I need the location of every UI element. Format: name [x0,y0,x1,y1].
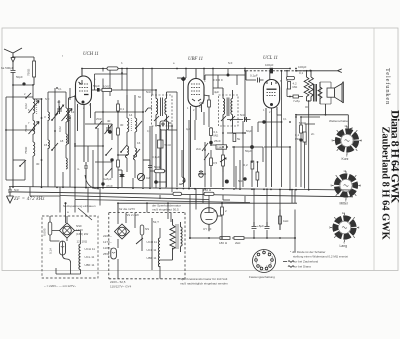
top rail [82,68,178,70]
input frame wires [6,85,75,187]
svg-text:127V~: 127V~ [103,240,112,244]
trim arrows IF1 [154,116,169,121]
heater line b [75,200,250,203]
long risers from main area down [100,187,245,206]
osc coil D3 [125,146,128,158]
antenna [4,48,22,187]
svg-text:Sperrkreistransformator für 11: Sperrkreistransformator für 110 Volt [180,277,227,281]
osc coil D4 [133,148,136,160]
svg-text:15: 15 [44,143,48,147]
svg-text:0,095: 0,095 [43,228,47,236]
osc section verticals [75,95,143,187]
svg-text:6a 500pF: 6a 500pF [1,66,14,70]
heater line c [118,202,297,204]
svg-text:25nF: 25nF [96,117,102,121]
switch M1 [105,148,112,156]
svg-text:ZF = 472 kHz: ZF = 472 kHz [14,197,45,202]
screen resistor 250 [208,100,211,107]
trim arrows IF2 [221,116,235,121]
svg-text:Kurz: Kurz [342,157,349,161]
resistor 0,5M [210,158,213,166]
switch K1 [51,113,58,121]
svg-text:110V~: 110V~ [103,246,112,250]
svg-text:~ = 220V~ — mit 127V~: ~ = 220V~ — mit 127V~ [44,284,76,288]
svg-text:100pF: 100pF [298,65,307,69]
resistor 0,1M [210,128,213,136]
svg-text:UCL 11: UCL 11 [147,248,157,252]
svg-text:30: 30 [213,209,217,213]
cap 100pF blob on rail [270,68,273,74]
svg-text:50pF: 50pF [93,84,100,88]
blob caps mid-left [108,130,111,133]
cap 50nF horizontal [239,117,251,122]
svg-text:25W: 25W [103,252,109,256]
svg-text:50µF: 50µF [246,129,252,133]
svg-text:500Ω: 500Ω [299,121,307,125]
mains sperrkreis transformer [160,219,178,260]
top rail to jack [296,69,342,73]
svg-text:5nF: 5nF [238,179,243,183]
switch arrow box2 [136,238,143,244]
B+ resistor 180 [220,237,230,240]
anode link to IF1 [92,69,157,113]
pot wiper blob [225,180,229,184]
svg-text:muß nachträglich eingebaut wer: muß nachträglich eingebaut werden [180,282,228,286]
cap blob left of UBF [181,76,186,81]
svg-text:250: 250 [199,101,204,105]
svg-text:Zauberland 8 H 64 GWK: Zauberland 8 H 64 GWK [380,127,391,240]
svg-text:nur bei Diana: nur bei Diana [293,265,311,269]
resistor 0,1 [117,104,120,111]
coil C2 [66,134,67,145]
cap 5nF small [243,177,246,180]
coil B1 [48,112,49,120]
variometer arrow A2 [29,122,40,135]
resistor 250 [117,128,120,135]
antenna coil A3 [33,142,35,156]
padder trimmer circle [137,173,144,180]
svg-text:110/127V~ GY4: 110/127V~ GY4 [110,285,132,289]
svg-text:7+8µ: 7+8µ [293,99,300,103]
svg-text:0,1: 0,1 [58,87,62,91]
coil C1 [66,108,70,122]
svg-text:für die 127V: für die 127V [119,207,135,211]
resistor 5k vertical [233,134,236,142]
svg-text:750Ω: 750Ω [24,146,28,154]
switch M3 [120,145,127,153]
switch box mid [157,121,172,130]
osc coil D1 [127,118,129,132]
svg-text:4+8µF: 4+8µF [103,177,112,181]
osc coil D2 [131,118,137,132]
svg-text:UCL 11: UCL 11 [263,56,278,61]
lamp pill [60,241,66,255]
pin number labels [77,78,282,114]
cap 50pF blob [97,88,100,92]
cap 50pF blob [22,82,25,85]
junction dots left [41,117,43,119]
resistor 2k near UY [221,207,224,215]
extra wires upper mid [177,69,245,88]
svg-text:+8µF: +8µF [257,224,264,228]
svg-text:Telefunken: Telefunken [384,68,391,105]
right column feedback network [277,115,320,189]
svg-text:0,1: 0,1 [283,117,287,121]
pickup jack hook [179,177,185,184]
svg-text:180 Ω: 180 Ω [219,241,228,245]
heater resistor pill 2 [204,192,214,195]
svg-text:0,1: 0,1 [299,71,304,75]
svg-text:0,5: 0,5 [213,161,218,165]
rectifier bridge 1 [60,223,75,238]
B+ resistor 2k [234,237,244,240]
switch K3 [19,160,26,167]
svg-text:(165) kW: (165) kW [76,232,88,236]
svg-text:muß eingebaut 50,5: muß eingebaut 50,5 [152,208,179,212]
svg-text:50pF: 50pF [16,75,23,79]
svg-text:5nF: 5nF [228,61,233,65]
lamp pill 2 [111,248,117,259]
svg-text:14: 14 [129,113,133,117]
second bus [9,192,353,197]
electrolytic 8uF b [252,222,257,229]
svg-text:5nF: 5nF [240,113,245,117]
speaker cone [335,82,344,103]
electrolytic 50uF [250,145,254,149]
svg-text:UCH 11: UCH 11 [83,52,99,57]
svg-text:stellung einen Widerstand 0,2: stellung einen Widerstand 0,2 MΩ ersetzt [293,255,348,259]
zigzag resistor W1 [304,71,309,101]
resistor 50k [117,160,120,167]
svg-text:UCH 11: UCH 11 [85,247,96,251]
svg-text:2kΩ: 2kΩ [235,241,241,245]
grid dashed rail [246,70,310,72]
phono jack [199,171,203,177]
svg-text:40: 40 [107,119,111,123]
rail risers [82,69,152,188]
svg-text:MΩ: MΩ [293,85,298,89]
svg-text:50µF: 50µF [245,149,252,153]
svg-text:5nF: 5nF [14,188,19,192]
variometer arrow C1 [62,109,73,122]
resistor 0,2M right2 [256,172,259,180]
heater line a [60,196,209,200]
svg-text:UBF 11: UBF 11 [147,256,157,260]
rail over UBF [178,68,290,70]
svg-text:UBF 11: UBF 11 [188,57,203,62]
svg-text:40: 40 [57,100,61,104]
svg-text:18: 18 [60,139,64,143]
heater coil 2 [158,238,160,267]
antenna coil A1 [33,99,37,114]
resistor 4,2M [287,76,295,79]
padder cap [84,162,88,187]
svg-text:16: 16 [137,141,141,145]
antenna coil A2 [33,121,35,135]
IF1 secondary lead [152,92,177,187]
electrolytic 4uF [143,160,152,187]
RC pill mid [155,169,165,173]
svg-text:Fassungsschaltung: Fassungsschaltung [249,275,275,279]
svg-text:30: 30 [36,162,40,166]
electrolytic 8uF [118,170,125,187]
resistor pill box2 [140,225,144,235]
svg-text:0,2: 0,2 [244,163,249,167]
svg-text:4µF: 4µF [186,127,191,131]
trimmer 30pF [105,124,113,134]
rectifier bridge 2 [115,224,130,239]
svg-text:100pF: 100pF [265,63,274,67]
main ground bus [9,187,353,191]
speaker-line to jack 2 [296,104,353,131]
svg-text:5nΩ: 5nΩ [154,165,160,169]
svg-text:5nF: 5nF [146,90,151,94]
knob Lang [329,212,360,245]
volume pot [220,155,226,172]
transformer secondary zigzag [318,82,322,104]
variometer arrow A1 [29,101,40,114]
anode resistor 100ohm [102,88,112,91]
svg-text:30: 30 [120,123,124,127]
cap 5k box [158,126,164,187]
switch K4 [25,93,31,99]
svg-text:Lang: Lang [340,244,348,248]
svg-text:100Ω: 100Ω [103,85,111,89]
svg-text:25nF: 25nF [214,139,221,143]
knob Kurz [332,125,363,158]
svg-text:0,02: 0,02 [58,126,62,132]
blob cap mid [154,180,158,184]
resistor 750ohm top [33,61,36,77]
schematic-margin separator [373,28,375,271]
svg-text:5k: 5k [237,137,241,141]
svg-text:Netzspannung einbauen: Netzspannung einbauen [63,204,96,208]
resistor 1M horizontal [216,145,227,149]
svg-text:750Ω: 750Ω [27,68,31,76]
resistor 0,2M right [251,161,254,169]
cap 25nF blob [209,141,213,145]
svg-text:2n: 2n [311,132,315,136]
resistor 0,095 pill [48,222,52,235]
resistor horizontal right [293,95,299,98]
ground at left [7,187,14,203]
B+ wiring [190,189,295,252]
resistor right of UY [279,216,282,224]
svg-text:750Ω: 750Ω [24,124,28,132]
coupling cap 0,1uF [246,71,264,83]
svg-text:52,T: 52,T [153,220,159,224]
trimmer 40pF [56,105,64,115]
svg-text:Mittel: Mittel [340,202,348,206]
tap from heater line [65,203,67,223]
svg-text:UCL 11: UCL 11 [85,255,95,259]
transformer right winding [181,222,183,252]
svg-text:UCH 11: UCH 11 [147,240,158,244]
box1 wires [50,216,81,274]
svg-text:Wellenschalter: Wellenschalter [329,119,349,123]
extra mid-bottom wiring [30,187,295,230]
cap near cathode [262,120,265,123]
coil B2 [48,140,49,148]
svg-text:MΩ: MΩ [214,134,219,138]
transformer core bars [314,84,316,102]
svg-text:5nF: 5nF [45,97,50,101]
knob Mittel [331,170,362,203]
switch M2 [105,168,112,176]
S jumper [63,255,71,263]
node dot [12,84,14,86]
speaker frame box [320,82,331,104]
extra bus taps [63,120,240,189]
svg-text:4µF: 4µF [214,90,219,94]
scattered tiny labels [24,54,308,151]
heater resistor pill 1 [173,192,182,195]
tube UCL11 [263,71,279,187]
svg-text:47nF: 47nF [106,184,113,188]
svg-text:0,1: 0,1 [147,129,151,133]
svg-text:NS: NS [145,227,149,231]
zigzag resistor W2 [309,71,314,101]
svg-text:nur bei Zauberland: nur bei Zauberland [293,260,319,264]
svg-text:0,1µF: 0,1µF [250,74,258,78]
tube UBF11 [188,69,209,188]
wires UCL [227,69,303,190]
grid return arc [85,175,99,189]
svg-text:0,1: 0,1 [120,107,125,111]
svg-text:4-: 4- [77,167,80,171]
extra switch pair top [95,121,102,129]
svg-text:220V~: 220V~ [103,234,112,238]
svg-text:0,1A: 0,1A [49,248,53,254]
speaker voice coil [327,88,335,97]
svg-text:1kΩ: 1kΩ [283,219,289,223]
coil C3 [66,158,67,169]
tube UCH11 [69,69,92,163]
resistor 0,1M fb [303,132,306,142]
cap blob mid [227,74,230,77]
svg-text:NS 2 mW: NS 2 mW [126,213,139,217]
mid verticals cluster [150,126,182,192]
rail pill resistor [107,67,118,70]
resistor 500ohm [300,125,303,133]
dots [117,111,119,113]
svg-text:2kΩ: 2kΩ [196,147,201,151]
svg-text:UY 1F: UY 1F [203,227,212,231]
switch K2 [51,143,58,151]
cap small fb [299,138,302,141]
svg-text:220V~ 52,5: 220V~ 52,5 [110,280,126,284]
svg-text:12. 10Ω: 12. 10Ω [77,240,88,244]
electrolytic 16uF [265,222,270,229]
svg-text:UBF 11: UBF 11 [85,263,95,267]
heater chain coil [79,244,81,270]
svg-text:* die Diode ist der Schalter: * die Diode ist der Schalter [290,250,326,254]
svg-text:C2: C2 [146,176,150,180]
